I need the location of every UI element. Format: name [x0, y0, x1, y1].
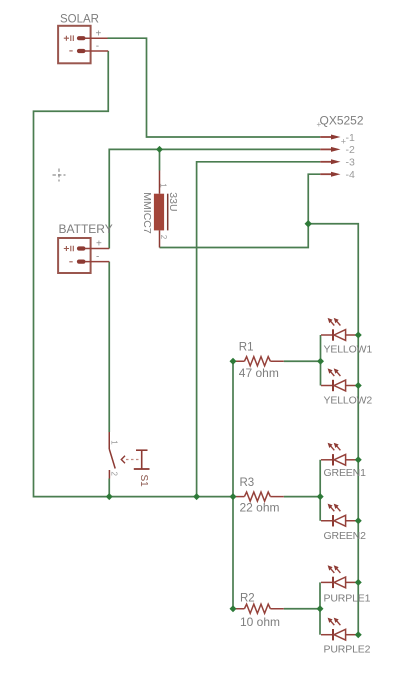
junction R3 left — [230, 493, 237, 500]
svg-text:PURPLE2: PURPLE2 — [324, 644, 371, 656]
LED GREEN1 — [321, 443, 357, 466]
wire R2 right to purple cathode node — [284, 608, 320, 610]
svg-text:-: - — [96, 41, 99, 52]
SOLAR pin - lead — [85, 50, 108, 52]
junction YELLOW2 anode — [355, 382, 362, 389]
svg-text:R2: R2 — [240, 593, 255, 605]
inductor L1 pin 2 lead — [159, 230, 161, 247]
wire QX5252 pin 4 to node — [160, 174, 321, 247]
QX5252 pin 1 — [320, 135, 340, 140]
connector SOLAR box — [58, 26, 91, 64]
junction switch bottom rail — [106, 493, 113, 500]
junction GREEN2 anode — [355, 517, 362, 524]
svg-text:-3: -3 — [346, 157, 355, 169]
svg-text:YELLOW2: YELLOW2 — [324, 395, 373, 407]
svg-text:PURPLE1: PURPLE1 — [324, 593, 371, 605]
junction yellow cathode node — [317, 358, 324, 365]
svg-text:R1: R1 — [239, 342, 254, 354]
inductor L1 pin 1 lead — [159, 171, 161, 194]
SOLAR pin + lead — [85, 37, 108, 39]
wire R3 right to green cathode node — [284, 496, 320, 498]
QX5252 pin 2 — [320, 147, 340, 152]
resistor R3 — [234, 492, 284, 501]
junction pin4 node — [305, 220, 312, 227]
junction R2 left — [230, 605, 237, 612]
switch S1 actuator top bar — [136, 449, 148, 451]
LED YELLOW1 — [321, 318, 357, 341]
BATTERY pin + lead — [85, 248, 109, 250]
QX5252 pin 3 — [320, 159, 340, 164]
svg-text:-1: -1 — [346, 132, 355, 144]
wire node to right anode rail — [308, 224, 358, 635]
BATTERY pin - pill — [77, 260, 86, 264]
svg-text:S1: S1 — [138, 475, 149, 488]
junction R1 left — [230, 358, 237, 365]
junction PURPLE1 anode — [355, 579, 362, 586]
BATTERY polarity mark minus — [69, 261, 72, 263]
svg-text:YELLOW1: YELLOW1 — [324, 344, 373, 356]
junction green cathode node — [317, 493, 324, 500]
switch S1 dashed link — [126, 459, 140, 461]
svg-text:-2: -2 — [346, 144, 355, 156]
SOLAR pin + pill — [77, 36, 86, 40]
junction GREEN1 anode — [355, 456, 362, 463]
wire green cathode link — [319, 460, 321, 521]
svg-text:SOLAR: SOLAR — [60, 14, 99, 26]
svg-text:2: 2 — [159, 235, 168, 240]
switch S1 actuator stem — [141, 450, 143, 469]
switch S1 pin 2 lead — [108, 470, 110, 479]
junction inductor top — [156, 146, 163, 153]
wire resistor column vertical — [232, 361, 234, 609]
wire yellow cathode link — [320, 335, 322, 386]
connector BATTERY box — [58, 238, 91, 273]
LED YELLOW2 — [321, 368, 357, 391]
svg-text:2: 2 — [109, 472, 118, 477]
svg-text:MMICC7: MMICC7 — [141, 192, 153, 234]
svg-text:BATTERY: BATTERY — [59, 222, 113, 236]
LED PURPLE2 — [321, 618, 357, 641]
resistor R1 — [234, 357, 284, 366]
switch S1 pin 1 lead — [108, 432, 110, 449]
wire BATTERY- net down to switch S1 pin 1 — [108, 262, 110, 432]
svg-text:+: + — [96, 239, 102, 250]
SOLAR polarity mark plus — [64, 35, 74, 41]
svg-text:47 ohm: 47 ohm — [239, 366, 279, 380]
BATTERY polarity mark plus — [64, 246, 74, 252]
svg-text:22 ohm: 22 ohm — [240, 500, 280, 514]
junction pin3 bottom rail — [193, 493, 200, 500]
svg-text:QX5252: QX5252 — [320, 114, 364, 128]
svg-text:1: 1 — [109, 440, 118, 445]
SOLAR polarity mark minus — [69, 50, 72, 52]
wire SOLAR- net down left rail to bottom rail — [34, 51, 234, 497]
wire R1 right to yellow cathode node — [284, 360, 321, 362]
inductor L1 core bar — [167, 194, 169, 231]
svg-text:1: 1 — [158, 183, 167, 188]
wire purple cathode link — [319, 582, 321, 634]
junction purple cathode node — [317, 605, 324, 612]
junction YELLOW1 anode — [355, 332, 362, 339]
wire QX5252 pin 3 down to bottom rail — [197, 162, 321, 497]
BATTERY pin + pill — [77, 246, 86, 250]
svg-text:+: + — [96, 29, 102, 40]
LED PURPLE1 — [321, 565, 357, 588]
svg-text:+: + — [317, 120, 322, 129]
wire inductor top stub — [159, 149, 161, 170]
svg-text:10 ohm: 10 ohm — [240, 615, 280, 629]
svg-text:GREEN2: GREEN2 — [324, 530, 367, 542]
svg-text:-4: -4 — [346, 169, 355, 181]
QX5252 pin 4 — [320, 172, 340, 177]
LED GREEN2 — [321, 504, 357, 527]
svg-text:33U: 33U — [167, 192, 179, 211]
wire BATTERY+ net to QX5252 pin 2 — [109, 149, 320, 248]
switch S1 lever — [109, 449, 115, 469]
switch S1 actuator bottom bar — [134, 468, 150, 470]
wire switch S1 pin 2 down to bottom rail — [108, 479, 110, 497]
sheet reference cross — [53, 174, 66, 176]
BATTERY pin - lead — [85, 261, 109, 263]
svg-text:GREEN1: GREEN1 — [324, 467, 367, 479]
resistor R2 — [234, 604, 284, 613]
SOLAR pin - pill — [77, 49, 86, 53]
svg-text:R3: R3 — [240, 477, 255, 489]
switch S1 link arrow — [121, 456, 125, 463]
wire SOLAR+ net to QX5252 pin 1 — [108, 38, 321, 137]
svg-text:-: - — [96, 252, 99, 263]
inductor L1 body — [154, 194, 164, 231]
junction PURPLE2 anode — [355, 631, 362, 638]
